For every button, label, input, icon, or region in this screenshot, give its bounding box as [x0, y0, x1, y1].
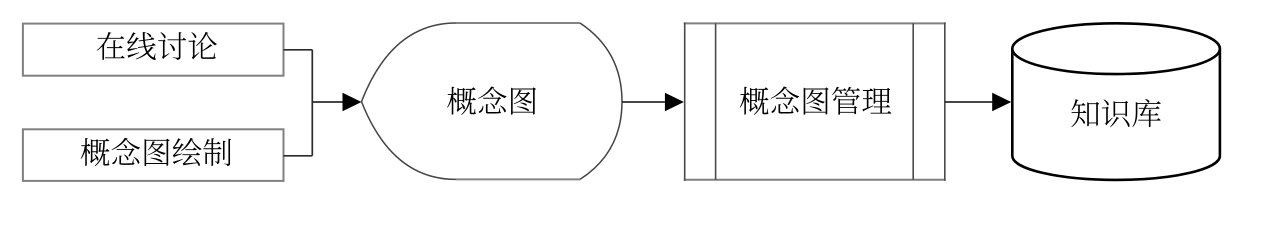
- predefined process inner left line: [715, 23, 717, 179]
- label 概念图管理: [740, 87, 892, 115]
- wire: from 概念图绘制 to junction: [284, 155, 313, 157]
- predefined process box: 概念图管理: [684, 23, 946, 179]
- wire: from 在线讨论 to junction: [284, 49, 313, 51]
- display shape: 概念图: [456, 23, 580, 179]
- process box: 在线讨论: [23, 24, 284, 76]
- arrow: 概念图 to 概念图管理: [622, 101, 665, 103]
- label 知识库: [1071, 99, 1160, 127]
- label 概念图绘制: [81, 138, 231, 166]
- predefined process inner right line: [912, 23, 914, 179]
- database cylinder: 知识库: [1012, 23, 1220, 180]
- label 概念图: [447, 87, 536, 115]
- arrow: junction to 概念图 display shape: [312, 101, 342, 103]
- wire: junction vertical bar: [311, 50, 313, 156]
- process box: 概念图绘制: [23, 129, 284, 181]
- label 在线讨论: [97, 32, 217, 60]
- arrow: 概念图管理 to 知识库: [945, 101, 992, 103]
